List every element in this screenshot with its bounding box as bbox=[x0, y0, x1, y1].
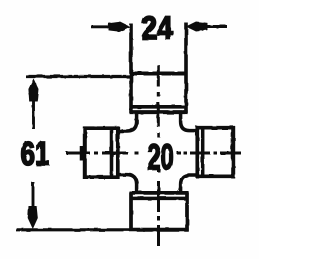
svg-text:61: 61 bbox=[21, 135, 50, 172]
svg-text:24: 24 bbox=[142, 10, 173, 46]
svg-text:20: 20 bbox=[147, 137, 174, 178]
